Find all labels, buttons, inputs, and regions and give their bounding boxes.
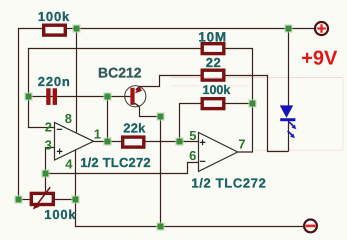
svg-text:−: − — [56, 124, 62, 136]
svg-text:1/2 TLC272: 1/2 TLC272 — [80, 155, 151, 170]
svg-text:8: 8 — [65, 111, 72, 126]
svg-text:BC212: BC212 — [98, 65, 142, 81]
svg-text:10M: 10M — [198, 29, 227, 44]
svg-text:1: 1 — [94, 126, 101, 141]
svg-text:1/2 TLC272: 1/2 TLC272 — [191, 176, 266, 191]
svg-text:5: 5 — [189, 128, 196, 143]
svg-text:7: 7 — [238, 137, 245, 152]
svg-text:4: 4 — [65, 156, 73, 171]
svg-text:2: 2 — [45, 119, 52, 134]
svg-text:22: 22 — [206, 55, 221, 70]
svg-text:220n: 220n — [38, 74, 71, 89]
svg-text:100k: 100k — [38, 9, 70, 24]
svg-text:6: 6 — [189, 148, 196, 163]
svg-text:22k: 22k — [123, 121, 146, 136]
svg-text:−: − — [199, 156, 205, 168]
svg-text:+: + — [56, 146, 62, 158]
svg-text:+9V: +9V — [301, 47, 338, 69]
svg-text:3: 3 — [45, 138, 52, 153]
svg-text:100k: 100k — [203, 83, 231, 97]
svg-text:100k: 100k — [44, 207, 76, 222]
svg-text:+: + — [199, 137, 205, 149]
